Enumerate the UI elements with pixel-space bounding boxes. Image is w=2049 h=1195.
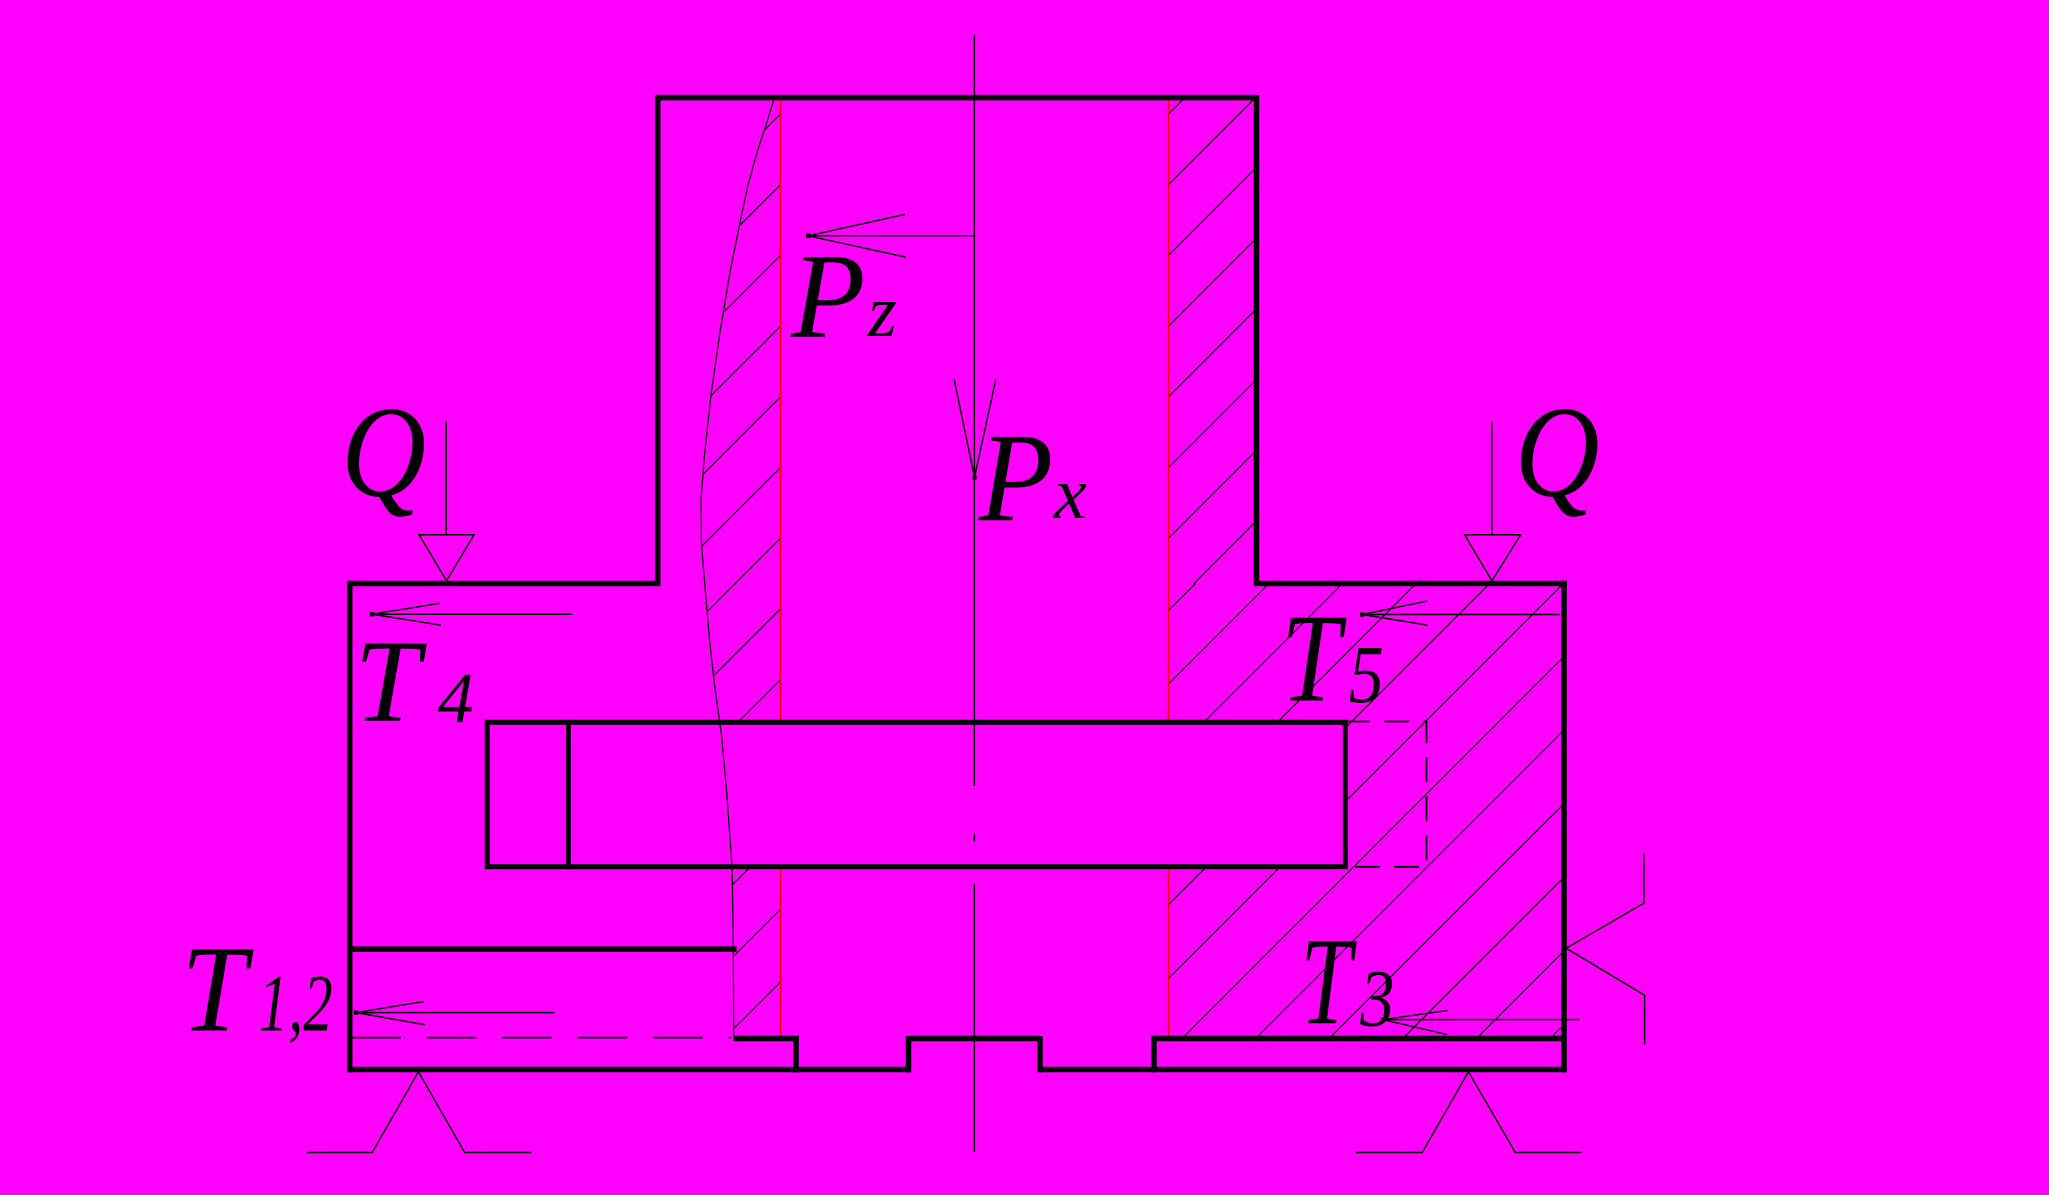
fixed support symbol bottom-left	[307, 1072, 532, 1153]
support strip right: top edge and left end	[1151, 1036, 1564, 1072]
hatching: column wall left (local section)	[0, 0, 1460, 1195]
friction arrow T4 (leftward)	[370, 603, 573, 625]
svg-text:Q: Q	[1514, 379, 1599, 524]
clamp force arrow Q right (hollow triangle)	[1465, 422, 1521, 581]
friction arrow T3 (leftward)	[1381, 1011, 1580, 1035]
hidden line: strip top under left side (dashed)	[351, 1037, 731, 1039]
hatching: base left band	[417, 0, 1762, 1195]
svg-text:P: P	[790, 229, 866, 364]
bottom edge segments	[347, 1036, 1567, 1072]
centerline (vertical axis)	[973, 35, 975, 1152]
svg-text:4: 4	[438, 659, 474, 739]
red line: hole wall right	[1168, 99, 1170, 1037]
workpiece bar outline	[487, 722, 1345, 866]
svg-text:P: P	[978, 407, 1054, 548]
base flange right edge	[1561, 581, 1567, 1073]
svg-text:T: T	[1281, 589, 1347, 728]
column outline (top rectangle)	[658, 98, 1257, 584]
force arrow Px (downward, on centerline)	[954, 379, 996, 479]
svg-text:5: 5	[1349, 629, 1384, 720]
svg-text:x: x	[1053, 453, 1087, 535]
svg-text:Q: Q	[341, 379, 426, 524]
svg-text:T: T	[354, 615, 427, 746]
force arrow Pz (leftward)	[806, 214, 974, 257]
svg-text:1,2: 1,2	[259, 960, 333, 1049]
fixed support symbol bottom-right	[1356, 1072, 1582, 1153]
svg-text:z: z	[867, 271, 897, 353]
base flange left edge	[347, 581, 353, 1073]
svg-text:3: 3	[1359, 954, 1394, 1044]
red line: hole wall left	[780, 99, 782, 1037]
break-line curve of local section	[701, 98, 775, 1039]
svg-text:T: T	[1300, 911, 1357, 1050]
base flange top edge	[347, 581, 1567, 587]
clamp force arrow Q left (hollow triangle)	[419, 422, 474, 581]
svg-text:T: T	[181, 921, 254, 1059]
hidden continuation of workpiece (dashed rectangle)	[1345, 722, 1426, 867]
step line on left side of base	[350, 946, 737, 952]
friction arrow T1,2 (leftward)	[354, 1002, 555, 1025]
hatching: base right region	[579, 0, 2049, 1195]
support strip left: solid top segment and right end	[734, 1036, 799, 1072]
side support symbol at right edge	[1566, 853, 1645, 1044]
friction arrow T5 (leftward)	[1360, 601, 1560, 625]
workpiece end divider line	[566, 720, 571, 869]
